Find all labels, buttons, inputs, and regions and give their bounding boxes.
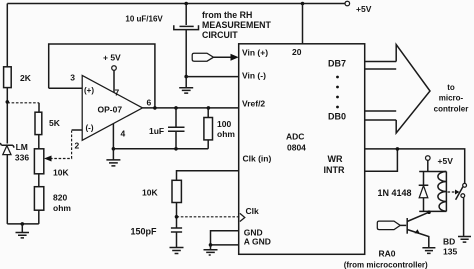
svg-text:(-): (-)	[86, 124, 94, 133]
svg-text:6: 6	[147, 98, 152, 108]
svg-text:Clk: Clk	[246, 206, 260, 216]
svg-text:7: 7	[115, 88, 120, 98]
svg-text:Vin (+): Vin (+)	[242, 48, 268, 58]
svg-text:2K: 2K	[20, 73, 32, 83]
svg-text:135: 135	[443, 247, 457, 257]
svg-text:INTR: INTR	[324, 165, 345, 175]
svg-text:Clk (in): Clk (in)	[243, 154, 272, 164]
svg-text:10K: 10K	[53, 168, 69, 178]
svg-text:(+): (+)	[84, 86, 94, 95]
svg-text:150pF: 150pF	[131, 227, 158, 237]
svg-text:3: 3	[70, 73, 75, 83]
svg-text:from the RH: from the RH	[202, 10, 252, 20]
svg-text:controler: controler	[434, 105, 469, 114]
svg-text:5K: 5K	[49, 118, 61, 128]
svg-text:2: 2	[75, 141, 80, 151]
svg-text:micro-: micro-	[439, 94, 464, 103]
svg-text:820: 820	[53, 193, 67, 203]
svg-text:CIRCUIT: CIRCUIT	[202, 30, 238, 40]
svg-text:Vin (-): Vin (-)	[242, 71, 266, 81]
svg-text:10 uF/16V: 10 uF/16V	[125, 15, 163, 24]
svg-text:+ 5V: + 5V	[103, 53, 121, 63]
svg-text:ADC: ADC	[286, 132, 304, 142]
svg-text:ohm: ohm	[217, 129, 235, 139]
svg-text:336: 336	[15, 153, 29, 163]
svg-text:100: 100	[217, 119, 231, 129]
svg-text:+5V: +5V	[438, 156, 454, 166]
svg-text:DB7: DB7	[328, 59, 346, 69]
svg-text:RA0: RA0	[379, 249, 396, 259]
svg-text:Vref/2: Vref/2	[242, 99, 265, 109]
svg-text:BD: BD	[443, 237, 455, 247]
svg-text:+5V: +5V	[356, 4, 372, 14]
svg-text:WR: WR	[328, 154, 343, 164]
svg-text:DB0: DB0	[328, 112, 346, 122]
svg-text:MEASUREMENT: MEASUREMENT	[202, 20, 272, 30]
svg-text:ohm: ohm	[53, 203, 71, 213]
svg-text:20: 20	[292, 47, 302, 57]
svg-text:(from microcontroller): (from microcontroller)	[344, 261, 428, 269]
svg-text:to: to	[447, 83, 455, 92]
svg-text:4: 4	[121, 129, 126, 139]
svg-text:LM: LM	[16, 142, 28, 152]
svg-text:1N 4148: 1N 4148	[378, 188, 412, 198]
svg-text:OP-07: OP-07	[98, 105, 123, 115]
svg-text:0804: 0804	[287, 143, 306, 153]
svg-text:A GND: A GND	[244, 237, 271, 247]
svg-text:1uF: 1uF	[149, 126, 164, 136]
svg-text:10K: 10K	[142, 188, 158, 198]
